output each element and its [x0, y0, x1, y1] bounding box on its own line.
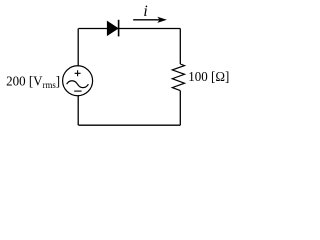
diode D1 cathode bar [118, 20, 120, 37]
AC source V1 circle [63, 66, 93, 96]
current arrow shaft [133, 19, 160, 21]
svg-text:200 [Vrms]: 200 [Vrms] [6, 75, 60, 91]
wire left vertical lower [77, 96, 79, 126]
diode D1 triangle [107, 21, 118, 35]
wire top [78, 28, 180, 30]
svg-text:i: i [143, 3, 147, 20]
wire right vertical lower [179, 91, 181, 126]
AC source sine tilde [67, 81, 89, 88]
wire right vertical upper [179, 29, 181, 65]
AC source minus sign [74, 90, 81, 92]
AC source plus sign [75, 70, 81, 76]
wire left vertical upper [77, 29, 79, 67]
resistor R1 zigzag [172, 64, 184, 91]
svg-text:100 [Ω]: 100 [Ω] [188, 70, 229, 85]
wire bottom [78, 124, 180, 126]
current arrow head [157, 17, 167, 23]
